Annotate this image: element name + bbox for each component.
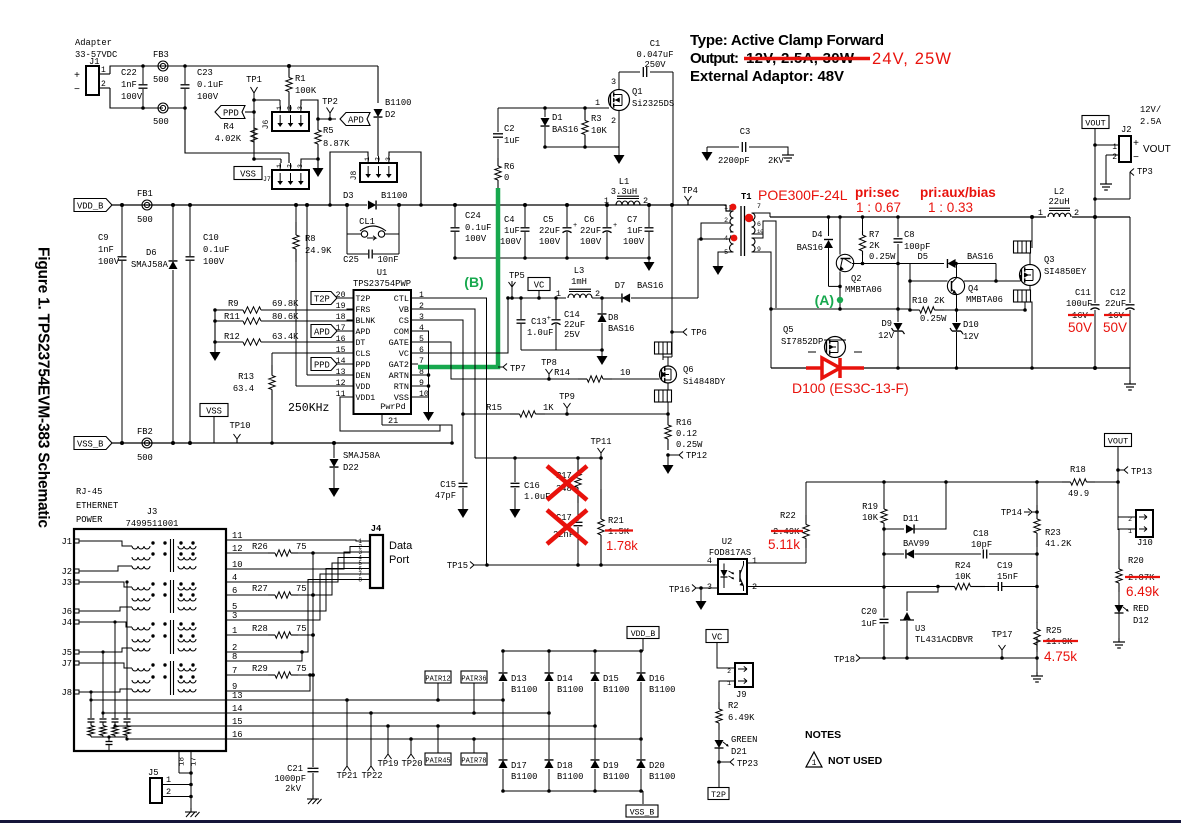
svg-text:75: 75: [296, 542, 307, 552]
svg-text:R15: R15: [486, 403, 502, 413]
U1 pin 1 CTL: [411, 297, 418, 299]
svg-text:R28: R28: [252, 624, 268, 634]
wire Q3 gate: [1020, 275, 1022, 281]
svg-text:B1100: B1100: [603, 772, 629, 782]
wire U2 pin1 to R22: [747, 562, 806, 564]
svg-text:R4: R4: [223, 122, 234, 132]
diode D2 B1100: [377, 66, 379, 103]
svg-text:1nF: 1nF: [121, 80, 137, 90]
ground arrow R12: [210, 352, 221, 361]
J3 transformer group 2: [132, 587, 150, 590]
wire J10 pins: [1118, 516, 1136, 518]
capacitor C17 not used: [577, 503, 579, 521]
ground arrow D8: [601, 350, 603, 356]
resistor R14: [578, 378, 587, 380]
wire R22 column: [805, 482, 807, 515]
wire Q4 emitter: [956, 294, 958, 310]
J3 lines 13-16: [89, 698, 92, 701]
svg-text:U2: U2: [722, 537, 733, 547]
svg-text:80.6K: 80.6K: [272, 312, 299, 322]
wire J8 pin1 to bus: [330, 152, 368, 205]
ground J5: [190, 808, 192, 812]
wire bridge top rail: [503, 650, 643, 652]
svg-text:TP16: TP16: [669, 585, 690, 595]
svg-text:TP20: TP20: [401, 759, 422, 769]
wire PwrPd to VSS rail: [382, 425, 452, 443]
svg-text:1uF: 1uF: [861, 619, 877, 629]
ground secondary: [1129, 368, 1131, 380]
svg-text:4: 4: [724, 235, 728, 242]
svg-text:4: 4: [707, 556, 712, 566]
svg-text:VC: VC: [534, 281, 545, 291]
LED D12 RED: [1118, 592, 1120, 605]
label T2P bottom: [708, 788, 729, 800]
svg-text:J8: J8: [350, 171, 359, 181]
snubber pack Q6 top: [655, 342, 672, 354]
flag VOUT top: [1082, 116, 1109, 129]
svg-text:L3: L3: [574, 266, 585, 276]
testpoint TP7: [498, 366, 503, 368]
zener D10: [956, 310, 958, 322]
resistor R5: [317, 119, 319, 130]
svg-text:8: 8: [419, 368, 424, 377]
ground D12: [1118, 638, 1120, 642]
U1 pin 20 T2P: [347, 297, 354, 299]
wire Q2 collector row: [852, 263, 944, 265]
capacitor C24: [454, 205, 456, 227]
label PAIR12: [425, 671, 451, 683]
wire VB down: [417, 309, 475, 458]
svg-text:10: 10: [419, 390, 429, 399]
ground C3 right: [787, 151, 789, 155]
svg-text:100uF: 100uF: [1066, 299, 1092, 309]
svg-text:R6: R6: [504, 162, 515, 172]
svg-text:1000pF: 1000pF: [274, 774, 306, 784]
svg-text:100V: 100V: [580, 237, 602, 247]
svg-text:1.5K: 1.5K: [608, 527, 630, 537]
svg-text:1mH: 1mH: [571, 277, 587, 287]
svg-text:L2: L2: [1054, 187, 1065, 197]
svg-text:TP7: TP7: [510, 364, 526, 374]
svg-text:CS: CS: [399, 316, 409, 326]
svg-text:D22: D22: [343, 463, 359, 473]
transistor Q6 Si4848DY: [660, 366, 677, 383]
svg-text:22uF: 22uF: [1105, 299, 1126, 309]
LED D21 GREEN: [718, 730, 720, 740]
svg-text:R27: R27: [252, 584, 268, 594]
svg-text:R2: R2: [728, 701, 739, 711]
svg-text:2: 2: [1112, 153, 1117, 162]
wire CLS to R13: [278, 352, 347, 354]
svg-text:+: +: [74, 71, 80, 82]
svg-text:PAIR45: PAIR45: [425, 758, 450, 766]
svg-text:R11: R11: [224, 312, 240, 322]
J4 pin 3: [363, 551, 370, 553]
svg-text:2kV: 2kV: [285, 784, 302, 794]
svg-text:VSS: VSS: [240, 170, 256, 180]
svg-text:J5: J5: [148, 768, 159, 778]
wire U2 pin3 TP16: [701, 587, 718, 589]
diode D20 B1100: [640, 739, 642, 759]
svg-text:Type: Active Clamp Forward: Type: Active Clamp Forward: [690, 32, 884, 49]
red X R17: [547, 466, 587, 500]
svg-text:17: 17: [336, 324, 346, 333]
U1 pin 2 VB: [411, 308, 418, 310]
resistor R7: [862, 217, 864, 231]
svg-text:FB1: FB1: [137, 189, 153, 199]
svg-text:J2: J2: [61, 567, 72, 577]
svg-text:1nF: 1nF: [98, 245, 114, 255]
svg-text:PPD: PPD: [223, 109, 239, 119]
resistor R9: [215, 309, 243, 311]
svg-text:R21: R21: [608, 516, 624, 526]
svg-text:RJ-45: RJ-45: [76, 487, 102, 497]
svg-text:2: 2: [643, 196, 648, 206]
svg-text:TP12: TP12: [686, 451, 707, 461]
ground fb: [1036, 672, 1038, 676]
svg-text:13: 13: [336, 368, 346, 377]
svg-text:C18: C18: [973, 529, 989, 539]
svg-text:B1100: B1100: [603, 685, 629, 695]
wire Q2 emitter to rail A: [839, 272, 841, 310]
wire C21 column: [312, 553, 314, 767]
svg-text:7499511001: 7499511001: [126, 519, 179, 529]
svg-text:D2: D2: [385, 110, 396, 120]
wire J3 pin10 to J4: [226, 552, 363, 569]
svg-text:VDD_B: VDD_B: [77, 202, 103, 212]
wire T1 pin7 to secondary bus: [755, 213, 770, 217]
svg-text:R29: R29: [252, 664, 268, 674]
svg-text:2: 2: [166, 787, 171, 797]
svg-text:0.047uF: 0.047uF: [637, 50, 674, 60]
svg-text:J2: J2: [1121, 125, 1132, 135]
svg-text:BAS16: BAS16: [797, 243, 823, 253]
wire TP1 to J6 pin1: [254, 99, 280, 101]
transistor Q1 Si2325DS: [609, 90, 630, 111]
svg-text:U1: U1: [377, 268, 388, 278]
wire VOUT to bus: [1094, 129, 1096, 217]
svg-text:GATE: GATE: [389, 338, 409, 348]
wire D5 right corner down: [995, 264, 997, 282]
resistor R15: [510, 413, 520, 415]
svg-text:C25: C25: [343, 255, 359, 265]
diode D14 B1100: [548, 651, 550, 672]
wire T1 pin2 jog: [701, 223, 730, 239]
wire J2 pin2 ground: [1105, 155, 1107, 180]
svg-text:0.12: 0.12: [676, 429, 697, 439]
wire J6 pin3 to APD node: [301, 100, 318, 119]
red diode D100: [806, 366, 822, 370]
testpoint TP8: [547, 377, 551, 381]
U1 pin 8 ARTN: [411, 374, 418, 376]
J3 termination RC: [88, 718, 95, 720]
svg-text:3: 3: [611, 77, 616, 87]
svg-text:14: 14: [336, 357, 346, 366]
svg-text:J4: J4: [61, 618, 72, 628]
wire U3 cathode up: [907, 587, 938, 612]
ferrite bead FB2: [142, 438, 152, 448]
svg-text:T2P: T2P: [356, 295, 371, 304]
U1 pin 10 VSS: [411, 396, 418, 398]
J3 transformer group 4: [132, 668, 150, 671]
capacitor C7: [648, 205, 650, 227]
snubber pack Q6 bottom: [667, 383, 669, 390]
svg-text:R25: R25: [1046, 626, 1062, 636]
svg-text:8.87K: 8.87K: [323, 139, 350, 149]
node line TP11: [475, 457, 601, 459]
flag VOUT bottom: [1105, 434, 1132, 447]
wire C1 to switch node: [672, 72, 674, 205]
wire bridge bottom rail: [503, 790, 643, 792]
svg-text:B1100: B1100: [385, 98, 411, 108]
resistor R16: [667, 402, 669, 414]
svg-text:TP10: TP10: [229, 421, 250, 431]
diode D19 B1100: [594, 726, 596, 759]
svg-text:C12: C12: [1110, 288, 1126, 298]
svg-text:C23: C23: [197, 68, 213, 78]
svg-text:75: 75: [296, 664, 307, 674]
wire FRS R9: [347, 309, 354, 311]
svg-text:T2P: T2P: [314, 295, 330, 305]
svg-text:ARTN: ARTN: [389, 371, 409, 381]
svg-text:1: 1: [419, 291, 424, 300]
svg-text:7: 7: [419, 357, 424, 366]
inductor L1: [607, 204, 614, 206]
svg-text:GAT2: GAT2: [389, 360, 409, 370]
label VSS box: [234, 167, 262, 180]
svg-text:J3: J3: [147, 507, 158, 517]
svg-text:100V: 100V: [465, 234, 487, 244]
svg-text:SMAJ58A: SMAJ58A: [343, 451, 381, 461]
svg-text:100V: 100V: [203, 257, 225, 267]
label PAIR45: [425, 753, 451, 765]
diode D5 BAS16: [947, 259, 955, 268]
svg-text:D4: D4: [812, 230, 823, 240]
J4 pin 5: [363, 562, 370, 564]
svg-text:22uF: 22uF: [580, 226, 601, 236]
svg-text:2: 2: [611, 116, 616, 126]
flag PPD U1: [311, 358, 337, 371]
capacitor C12: [1126, 304, 1135, 306]
svg-text:PwrPd: PwrPd: [380, 402, 406, 412]
svg-text:12V: 12V: [963, 332, 980, 342]
svg-text:18: 18: [179, 757, 187, 766]
capacitor C8: [897, 217, 899, 237]
svg-text:B1100: B1100: [511, 772, 537, 782]
svg-text:VDD1: VDD1: [356, 394, 376, 403]
flag PPD: [215, 106, 245, 119]
svg-text:0.25W: 0.25W: [920, 314, 947, 324]
resistor R2: [718, 702, 720, 709]
snubber pack Q3 bottom: [1029, 286, 1031, 291]
svg-text:C21: C21: [287, 764, 303, 774]
wire R26 row: [226, 552, 268, 554]
capacitor C21: [308, 767, 319, 769]
svg-text:50V: 50V: [1068, 320, 1092, 335]
svg-text:VSS_B: VSS_B: [630, 809, 655, 818]
svg-text:TP1: TP1: [246, 75, 262, 85]
diode D17 B1100: [502, 700, 504, 759]
wire VC pin: [417, 298, 508, 353]
wire fb bottom rail: [860, 657, 1037, 659]
capacitor C23: [184, 66, 186, 84]
svg-text:TP23: TP23: [737, 759, 758, 769]
U1 pin 16 DT: [347, 341, 354, 343]
wire TP15 line: [474, 564, 718, 566]
svg-text:DEN: DEN: [356, 372, 371, 381]
svg-text:MMBTA06: MMBTA06: [966, 295, 1003, 305]
svg-text:Figure 1. TPS23754EVM-383 Sche: Figure 1. TPS23754EVM-383 Schematic: [35, 247, 52, 528]
svg-text:BAS16: BAS16: [967, 252, 993, 262]
svg-text:500: 500: [137, 453, 153, 463]
wire R9 R11 R12 common: [214, 310, 216, 352]
page bottom border: [0, 820, 1181, 823]
svg-text:VSS_B: VSS_B: [77, 440, 103, 450]
svg-text:J1: J1: [61, 537, 72, 547]
svg-text:R12: R12: [224, 332, 240, 342]
svg-text:1: 1: [101, 66, 106, 75]
svg-text:J4: J4: [371, 524, 382, 534]
svg-text:TP13: TP13: [1131, 467, 1152, 477]
svg-text:250V: 250V: [644, 60, 666, 70]
testpoint TP20: [410, 739, 412, 754]
svg-text:NOTES: NOTES: [805, 729, 841, 741]
svg-text:B1100: B1100: [381, 191, 407, 201]
wire C8 column down: [897, 264, 899, 310]
diode D15 B1100: [594, 651, 596, 672]
resistor R4: [253, 118, 255, 128]
U1 pin 19 FRS: [347, 308, 354, 310]
svg-text:100V: 100V: [121, 92, 143, 102]
svg-text:J6: J6: [262, 120, 271, 130]
J3 transformer group 3: [132, 627, 150, 630]
svg-text:C13: C13: [531, 317, 547, 327]
svg-text:0.1uF: 0.1uF: [465, 223, 491, 233]
J5 pins 18 17: [178, 751, 180, 773]
svg-text:Q3: Q3: [1044, 255, 1055, 265]
U1 pin 14 PPD: [347, 363, 354, 365]
wire J3 pin5 to J4: [226, 569, 363, 612]
svg-text:C1: C1: [650, 39, 661, 49]
connector J9: [735, 663, 753, 687]
testpoint TP9: [565, 412, 569, 416]
diode D3 B1100: [345, 203, 349, 207]
svg-text:TP18: TP18: [834, 655, 855, 665]
svg-text:1.78k: 1.78k: [606, 538, 638, 553]
svg-text:D9: D9: [881, 319, 892, 329]
svg-text:R9: R9: [228, 299, 239, 309]
svg-text:D100 (ES3C-13-F): D100 (ES3C-13-F): [792, 380, 909, 396]
wire C13 C14 bottom: [521, 349, 602, 351]
svg-text:3: 3: [707, 582, 712, 592]
U1 pin 3 CS: [411, 319, 418, 321]
wire gate drive row: [498, 107, 590, 109]
wire R29 row: [226, 674, 268, 676]
wire rail A right: [944, 309, 1025, 311]
svg-text:BAS16: BAS16: [637, 281, 663, 291]
svg-text:J7: J7: [61, 659, 72, 669]
testpoint TP12: [666, 453, 670, 457]
svg-text:B1100: B1100: [511, 685, 537, 695]
svg-text:100K: 100K: [295, 86, 317, 96]
svg-text:5.11k: 5.11k: [768, 537, 800, 552]
capacitor C14: [555, 298, 557, 319]
node switch: [670, 203, 674, 207]
svg-text:C16: C16: [524, 481, 540, 491]
svg-text:PAIR36: PAIR36: [461, 676, 486, 684]
svg-text:C3: C3: [740, 127, 751, 137]
capacitor C10: [189, 205, 191, 256]
jumper J7: [272, 170, 309, 189]
label VC bottom: [706, 630, 728, 643]
svg-text:PAIR78: PAIR78: [461, 758, 486, 766]
svg-text:10: 10: [620, 368, 631, 378]
svg-text:COM: COM: [394, 327, 409, 337]
svg-text:1: 1: [724, 204, 728, 211]
wire main bus VDD: [112, 204, 347, 206]
svg-text:TPS23754PWP: TPS23754PWP: [353, 279, 411, 289]
svg-text:VB: VB: [399, 305, 409, 315]
svg-text:C6: C6: [584, 215, 595, 225]
svg-text:47pF: 47pF: [435, 491, 456, 501]
svg-text:R19: R19: [862, 502, 878, 512]
svg-text:POWER: POWER: [76, 515, 103, 525]
svg-text:1uF: 1uF: [504, 226, 520, 236]
svg-text:R13: R13: [238, 372, 254, 382]
testpoint TP19: [387, 726, 389, 754]
svg-text:GREEN: GREEN: [731, 735, 757, 745]
svg-text:12: 12: [336, 379, 346, 388]
svg-text:VDD: VDD: [356, 383, 371, 392]
svg-text:VSS: VSS: [206, 407, 222, 417]
svg-text:0: 0: [504, 173, 509, 183]
svg-text:B1100: B1100: [557, 772, 583, 782]
svg-text:Si2325DS: Si2325DS: [632, 99, 674, 109]
wire top rail: [143, 65, 378, 67]
svg-text:17: 17: [191, 757, 199, 766]
svg-text:J5: J5: [61, 648, 72, 658]
diode D7 BAS16: [602, 297, 621, 299]
svg-text:TP8: TP8: [541, 358, 557, 368]
svg-text:22uF: 22uF: [539, 226, 560, 236]
note triangle 1: [806, 752, 822, 767]
svg-text:D20: D20: [649, 761, 665, 771]
J3 internal wiring left: [79, 541, 132, 546]
svg-text:SMAJ58A: SMAJ58A: [131, 260, 169, 270]
svg-text:1 : 0.67: 1 : 0.67: [856, 200, 901, 215]
diode D8 BAS16: [601, 298, 603, 313]
svg-text:VC: VC: [399, 349, 409, 359]
svg-text:VOUT: VOUT: [1085, 119, 1105, 129]
svg-text:TP21: TP21: [336, 771, 357, 781]
resistor R17 not used: [576, 456, 580, 460]
testpoint TP23: [717, 760, 721, 764]
svg-text:C9: C9: [98, 233, 109, 243]
resistor R18: [1062, 481, 1071, 483]
ground arrow T1 pin5: [713, 266, 724, 275]
svg-text:B1100: B1100: [649, 685, 675, 695]
resistor R25: [1036, 610, 1038, 623]
label PAIR36: [461, 671, 487, 683]
svg-text:J10: J10: [1137, 538, 1153, 548]
testpoint TP21: [346, 700, 348, 766]
svg-text:500: 500: [137, 215, 153, 225]
transistor Q2 MMBTA06: [839, 217, 841, 255]
svg-text:FB3: FB3: [153, 50, 169, 60]
testpoint TP4: [687, 201, 689, 205]
svg-text:TP17: TP17: [991, 630, 1012, 640]
svg-text:C24: C24: [465, 211, 481, 221]
